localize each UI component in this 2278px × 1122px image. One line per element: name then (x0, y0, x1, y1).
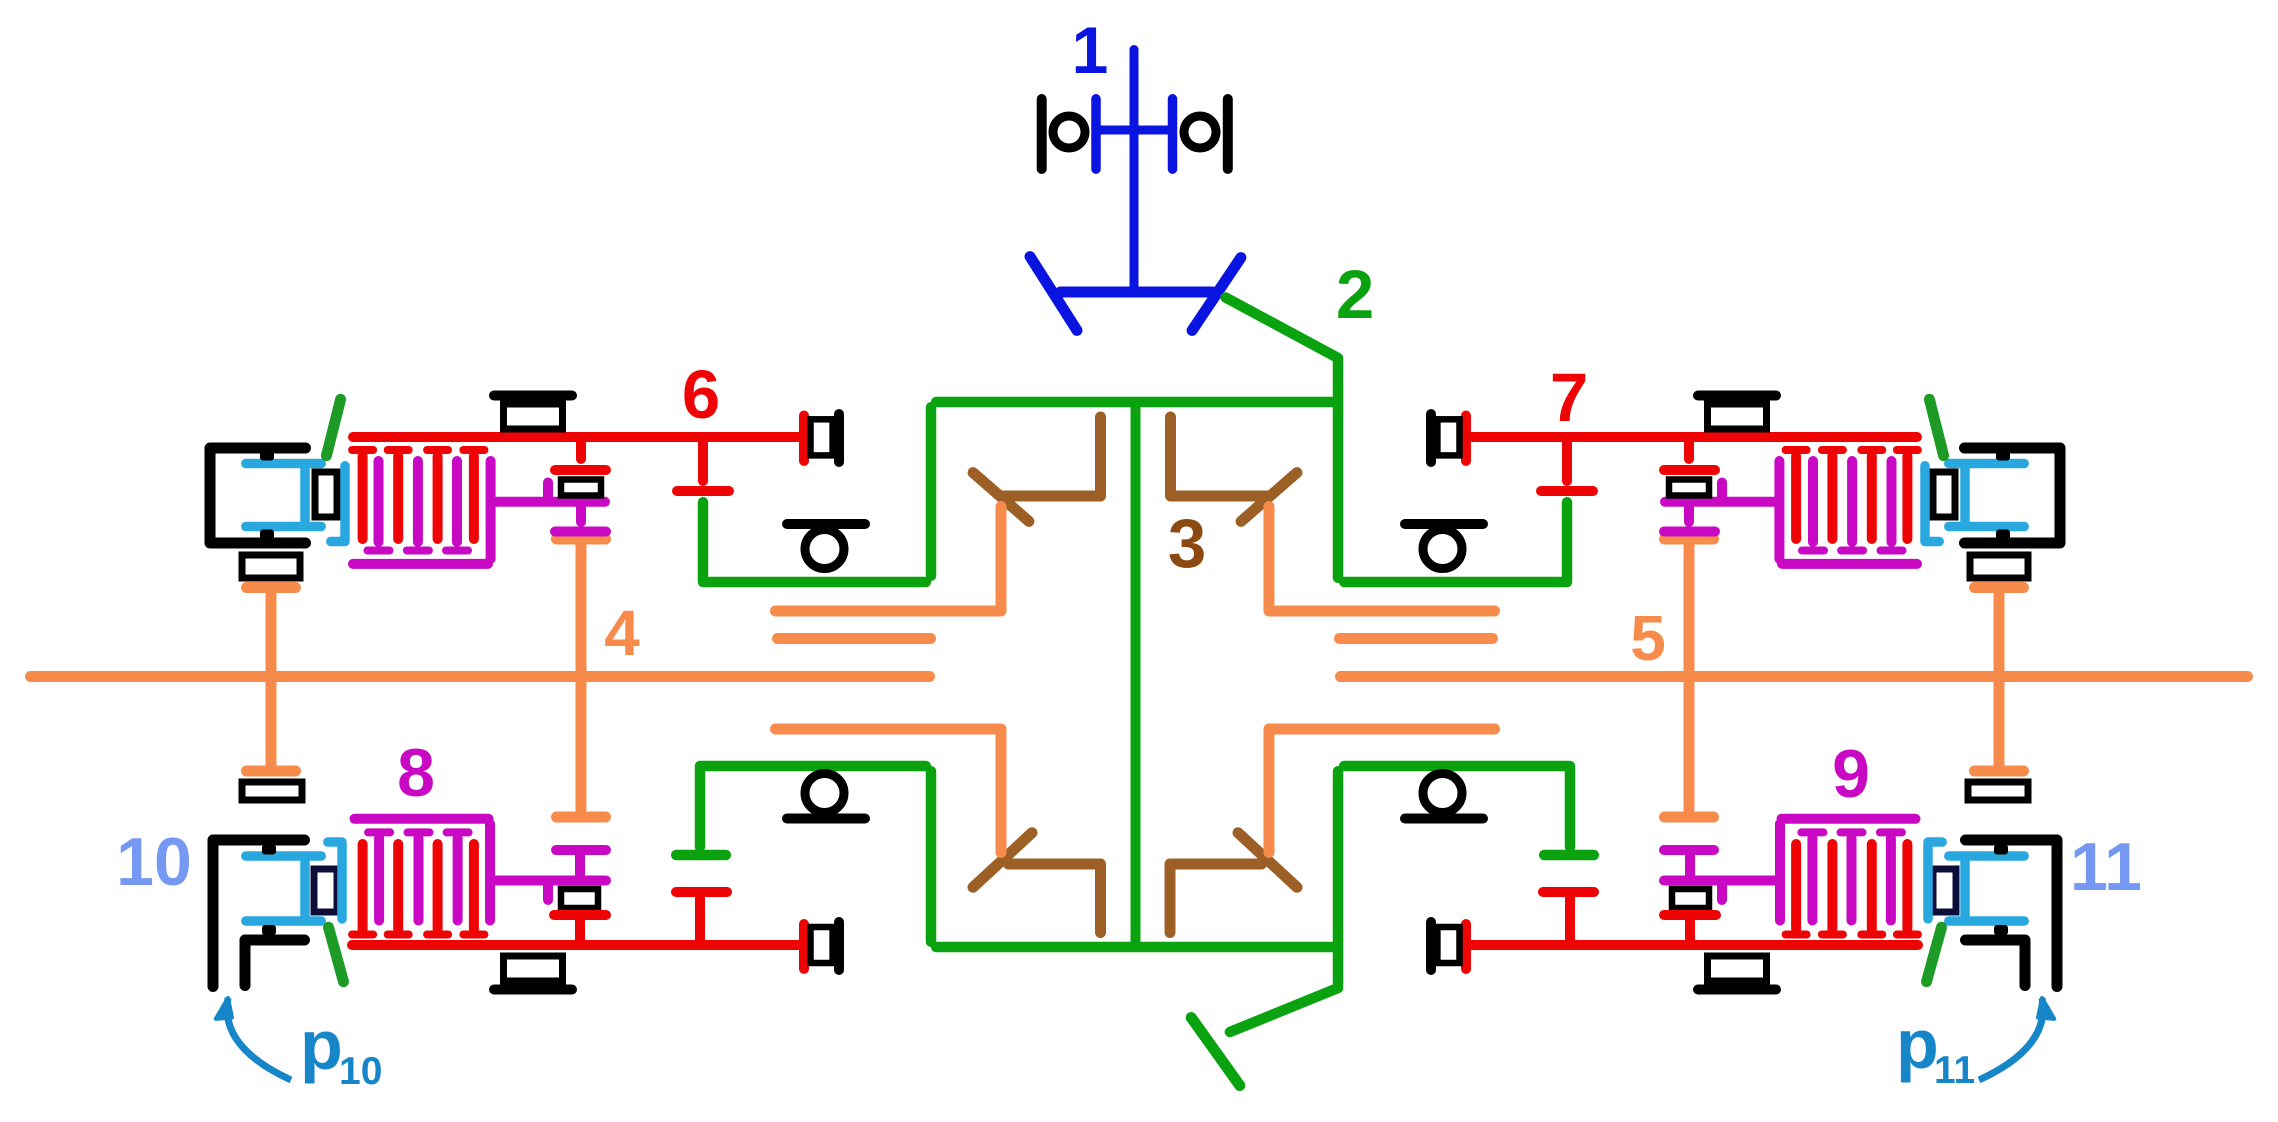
adjustable housing 10 outer (213, 840, 305, 987)
gear 4 inner column left bottom tooth (557, 812, 606, 823)
clutch 8 red plate 4 tooth (463, 931, 484, 939)
carrier bearing upper ball (805, 530, 844, 569)
gear tooth magenta 7 (1664, 527, 1715, 537)
race above gear 5 right (1970, 555, 2028, 578)
clutch 9 red plate 2 tooth (1861, 931, 1882, 939)
clutch 8 output hub (495, 876, 606, 886)
arrow to housing 10 (227, 998, 291, 1080)
hub bearing post 8 (543, 886, 553, 901)
carrier left wall lower (926, 771, 937, 942)
adjustable housing 10 inner (245, 940, 305, 986)
clutch 6 red plate 3 (433, 456, 443, 539)
clutch 9 magenta plate 2 (1847, 838, 1857, 921)
clutch 9 red plate 3 (1827, 844, 1837, 929)
clutch 8 red plate 4 (469, 844, 479, 929)
piston fork 10 web (300, 861, 310, 916)
gear stem magenta 8 (575, 855, 585, 876)
gear 4 outer column left bottom tooth (247, 766, 296, 777)
piston sleeve 10 (328, 842, 342, 919)
hub bearing post 7 (1717, 483, 1727, 497)
shaft 1 inner race left (1091, 99, 1101, 169)
shaft 9 end cap (1461, 924, 1471, 969)
clutch 9 drum top (1782, 814, 1916, 824)
housing pivot pin (1996, 451, 2010, 461)
gear bearing 8 (561, 889, 598, 908)
ring pinion on shaft 6 (698, 442, 708, 481)
clutch 7 magenta plate 1 tooth (1881, 547, 1903, 555)
clutch 8 magenta plate 2 tooth (408, 828, 430, 836)
clutch 6 red plate 3 tooth (427, 446, 448, 454)
shaft 1 crossbar (1097, 126, 1173, 135)
svg-text:7: 7 (1550, 359, 1588, 436)
axle spline right (1340, 633, 1493, 644)
carrier bearing upper ball (1423, 530, 1462, 569)
gear bearing 6 (561, 480, 601, 496)
pinion on shaft 8 (575, 920, 585, 940)
clutch 7 red plate 2 tooth (1861, 446, 1882, 454)
adjustable housing 11 inner (1966, 940, 2026, 986)
shaft 1 inner race right (1168, 99, 1178, 169)
carrier bearing lower ball (805, 774, 844, 813)
clutch 9 magenta plate 1 tooth (1880, 828, 1902, 836)
clutch 7 red plate 2 (1867, 456, 1877, 539)
race below gear 5 right (1968, 782, 2028, 800)
gear 4 outer column right stem (1994, 593, 2005, 766)
actuation lever 11-top (1929, 399, 1943, 455)
shaft 6 end cap (799, 416, 809, 462)
piston sleeve 11-top (1925, 466, 1939, 542)
piston fork 10-top web (300, 468, 310, 522)
carrier top bar (936, 397, 1332, 408)
shaft 8 end cap (799, 924, 809, 969)
shaft 7 line (1471, 432, 1917, 442)
clutch 7 red plate 4 tooth (1786, 446, 1807, 454)
housing pivot pin (1994, 925, 2008, 935)
clutch 6 output hub (496, 497, 605, 507)
clutch 6 red plate 4 (469, 456, 479, 539)
svg-text:9: 9 (1832, 736, 1870, 812)
gear stem magenta 7 (1684, 507, 1694, 522)
housing pivot pin (260, 451, 274, 461)
clutch 9 magenta plate 1 (1886, 838, 1896, 921)
clutch 7 magenta plate 1 (1887, 461, 1897, 542)
ring pinion tooth 7 (1541, 486, 1593, 496)
carrier bottom bar (936, 942, 1332, 953)
shaft 8 end bearing bar (834, 922, 844, 970)
clutch 8 magenta plate 2 (414, 838, 424, 921)
bevel 3 lower-left (1009, 864, 1101, 933)
gear 4 inner column right bottom tooth (1665, 812, 1714, 823)
bearing outer bar left (shaft 1) (1037, 99, 1047, 169)
shaft 7 end bearing bar (1426, 414, 1436, 462)
clutch 9 red plate 3 tooth (1822, 931, 1843, 939)
gear tooth magenta 6 (555, 527, 606, 537)
gear 4 outer column right bottom tooth (1975, 766, 2024, 777)
clutch 7 red plate 1 tooth (1897, 446, 1918, 454)
actuation lever 10 (329, 927, 344, 981)
shaft 7 end cap (1461, 416, 1471, 462)
bevel pinion 1 right tooth (1192, 258, 1241, 331)
shaft 6 end bearing race (811, 419, 833, 455)
svg-text:4: 4 (604, 597, 640, 669)
housing pivot pin (260, 530, 274, 540)
gear bearing 9 (1672, 889, 1709, 908)
gear 4 inner column right stem (1684, 546, 1695, 810)
clutch 8 magenta plate 3 tooth (447, 828, 469, 836)
clutch 9 output hub (1664, 876, 1775, 886)
actuation lever 10-top (326, 399, 340, 455)
clutch 8 red plate 2 tooth (388, 931, 409, 939)
side-gear link lower-right (1344, 766, 1570, 847)
adjustable housing 11 outer (1966, 840, 2058, 987)
piston fork 10-top upper arm (246, 459, 321, 469)
clutch 7 red plate 1 (1902, 456, 1912, 539)
clutch 8 magenta plate 1 tooth (368, 828, 390, 836)
svg-text:1: 1 (1072, 13, 1109, 87)
gear 4 outer column left top tooth (247, 582, 296, 593)
carrier bearing upper bar (787, 519, 865, 529)
clutch 7 red plate 3 tooth (1822, 446, 1843, 454)
shaft 7 end bearing race (1437, 419, 1459, 455)
side-gear shaft lower-right (1269, 729, 1495, 853)
ring pinion on shaft 7 (1562, 442, 1572, 481)
carrier bearing lower bar (787, 814, 865, 824)
housing pivot pin (1996, 530, 2010, 540)
svg-text:p: p (1896, 1005, 1939, 1083)
clutch 8 red plate 2 (393, 844, 403, 929)
side-gear link lower-left (700, 766, 926, 847)
clutch 8 red plate 1 tooth (352, 931, 373, 939)
shaft 9 line (1471, 940, 1918, 950)
bevel 3 upper-left (1004, 417, 1101, 496)
piston fork 11-top lower arm (1949, 522, 2024, 532)
clutch 8 red plate 3 tooth (427, 931, 448, 939)
piston fork 11-top upper arm (1949, 459, 2024, 469)
svg-text:p: p (300, 1006, 343, 1084)
svg-text:2: 2 (1336, 256, 1374, 333)
bearing ball right (shaft 1) (1184, 116, 1216, 148)
carrier center shaft (1131, 407, 1141, 942)
gear stem magenta 6 (576, 507, 586, 522)
ground mount bar (1698, 391, 1776, 401)
arrow to housing 11 (1979, 998, 2043, 1080)
clutch 9 magenta plate 3 tooth (1801, 828, 1823, 836)
clutch 6 magenta plate 2 tooth (407, 547, 429, 555)
clutch 8 drum wall (485, 824, 495, 921)
svg-text:10: 10 (339, 1050, 382, 1093)
side-gear tooth lower-right (1544, 850, 1594, 861)
ring pinion on shaft 8 (695, 897, 705, 940)
piston fork 11 upper arm (1949, 851, 2024, 861)
clutch 8 magenta plate 1 (374, 838, 384, 921)
svg-text:5: 5 (1630, 602, 1666, 674)
axle spline left (778, 633, 931, 644)
shaft 1 (blue input shaft) (1130, 50, 1139, 288)
ground mount bar (1698, 985, 1776, 995)
bevel 3 lower-right tooth (1238, 833, 1297, 888)
clutch 7 red plate 4 (1791, 456, 1801, 539)
clutch 8 red plate 1 (358, 844, 368, 929)
bearing ball left (shaft 1) (1053, 116, 1085, 148)
housing bracket top-right (1965, 448, 2061, 543)
piston fork 10 lower arm (246, 916, 321, 926)
shaft 9 end bearing bar (1426, 922, 1436, 970)
gear bearing 7 (1669, 480, 1709, 496)
ring pinion tooth 6 (677, 486, 729, 496)
clutch 7 magenta plate 3 tooth (1802, 547, 1824, 555)
side-gear link upper-right (1344, 502, 1567, 582)
gear 4 inner column right top tooth (1665, 534, 1714, 545)
piston fork 11 web (1960, 861, 1970, 916)
housing pivot pin (262, 925, 276, 935)
ground mount bar (494, 985, 572, 995)
ground mount race (1708, 404, 1767, 429)
clutch 6 red plate 2 tooth (388, 446, 409, 454)
clutch 9 red plate 1 tooth (1897, 931, 1918, 939)
ground mount race (504, 404, 563, 429)
side-gear shaft upper-left (776, 507, 1002, 612)
hub bearing 9 (1933, 869, 1956, 912)
clutch 6 magenta plate 1 (374, 461, 384, 542)
clutch 8 red plate 3 (433, 844, 443, 929)
clutch 7 red plate 3 (1827, 456, 1837, 539)
ring pinion tooth 9 (1543, 887, 1594, 897)
bevel 3 lower-right (1170, 864, 1262, 933)
axle 4 main line (31, 671, 930, 682)
clutch 6 red plate 2 (393, 456, 403, 539)
housing pivot pin (1994, 845, 2008, 855)
piston sleeve 10-top (331, 466, 345, 542)
ground mount bar (494, 391, 572, 401)
race above gear 4 left (242, 555, 300, 578)
svg-text:3: 3 (1168, 505, 1206, 582)
clutch 6 drum bottom (353, 559, 488, 569)
carrier left wall upper (926, 407, 937, 576)
svg-text:11: 11 (2070, 829, 2142, 905)
svg-text:11: 11 (1934, 1049, 1975, 1092)
axle 5 main line (1341, 671, 2248, 682)
clutch 6 red plate 1 tooth (352, 446, 373, 454)
clutch 6 drum wall (486, 461, 496, 559)
pinion tooth shaft 8 (554, 910, 606, 920)
gear 4 inner column left top tooth (557, 534, 606, 545)
bevel pinion 1 crossbar (1061, 287, 1213, 298)
actuation lever 11 (1927, 927, 1942, 981)
clutch 7 drum bottom (1782, 559, 1917, 569)
clutch 7 magenta plate 2 tooth (1841, 547, 1863, 555)
race below gear 4 left (242, 782, 302, 800)
clutch 8 magenta plate 3 (453, 838, 463, 921)
clutch 9 magenta plate 3 (1807, 838, 1817, 921)
gear 4 outer column right top tooth (1975, 582, 2024, 593)
carrier bearing upper bar (1405, 519, 1483, 529)
clutch 9 magenta plate 2 tooth (1841, 828, 1863, 836)
clutch 6 magenta plate 2 (413, 461, 423, 542)
ground mount race (1708, 956, 1767, 981)
clutch 8 drum top (355, 814, 489, 824)
ring pinion tooth 8 (676, 887, 727, 897)
ring pinion on shaft 9 (1565, 897, 1575, 940)
piston fork 10-top lower arm (246, 522, 321, 532)
hub bearing 8 (314, 869, 337, 912)
bevel 3 lower-left tooth (973, 833, 1032, 888)
pinion tooth shaft 7 (1664, 465, 1715, 475)
gear 4 inner column left stem (576, 546, 587, 810)
clutch 9 red plate 2 (1867, 844, 1877, 929)
gear 4 outer column left stem (266, 593, 277, 766)
clutch 9 red plate 4 (1791, 844, 1801, 929)
hub bearing 7 (1933, 472, 1955, 517)
carrier right wall lower + output stem (1230, 771, 1338, 1032)
clutch 7 magenta plate 3 (1808, 461, 1818, 542)
pinion tooth shaft 9 (1664, 910, 1716, 920)
clutch 6 magenta plate 3 (452, 461, 462, 542)
svg-text:10: 10 (116, 824, 192, 900)
gear stem magenta 9 (1685, 855, 1695, 876)
clutch 9 red plate 1 (1902, 844, 1912, 929)
hub bearing 6 (315, 472, 337, 517)
shaft 9 end bearing race (1437, 927, 1459, 963)
shaft 6 line (353, 432, 799, 442)
pinion on shaft 9 (1685, 920, 1695, 940)
gear tooth magenta 8 (556, 845, 606, 855)
clutch 7 output hub (1665, 497, 1774, 507)
svg-text:6: 6 (682, 356, 720, 433)
side-gear link upper-left (703, 502, 926, 582)
piston sleeve 11 (1928, 842, 1942, 919)
carrier bearing lower ball (1423, 774, 1462, 813)
svg-text:8: 8 (397, 735, 435, 811)
side-gear shaft upper-right (1269, 507, 1495, 612)
pinion tooth shaft 6 (555, 465, 606, 475)
output bevel pinion crossbar (1191, 1018, 1240, 1086)
clutch 6 red plate 4 tooth (463, 446, 484, 454)
clutch 9 drum wall (1775, 824, 1785, 921)
bevel 3 upper-right tooth (1241, 473, 1297, 522)
bevel 3 upper-right (1171, 417, 1268, 496)
hub bearing post 9 (1717, 886, 1727, 901)
carrier bearing lower bar (1405, 814, 1483, 824)
bevel 3 upper-left tooth (973, 473, 1029, 522)
clutch 9 red plate 4 tooth (1786, 931, 1807, 939)
hub bearing post 6 (543, 483, 553, 497)
bearing outer bar right (shaft 1) (1223, 99, 1233, 169)
pinion on shaft 7 (1684, 442, 1694, 459)
shaft 6 end bearing bar (834, 414, 844, 462)
piston fork 11 lower arm (1949, 916, 2024, 926)
clutch 7 drum wall (1774, 461, 1784, 559)
ground mount race (504, 956, 563, 981)
shaft 8 end bearing race (811, 927, 833, 963)
bevel pinion 1 left tooth (1030, 257, 1077, 331)
piston fork 11-top web (1960, 468, 1970, 522)
clutch 6 magenta plate 3 tooth (446, 547, 468, 555)
housing pivot pin (262, 845, 276, 855)
housing bracket top-left (210, 448, 306, 543)
gear tooth magenta 9 (1664, 845, 1714, 855)
side-gear shaft lower-left (776, 729, 1002, 853)
clutch 6 red plate 1 (358, 456, 368, 539)
shaft 8 line (352, 940, 799, 950)
clutch 7 magenta plate 2 (1847, 461, 1857, 542)
link 2 from bevel to carrier (1226, 298, 1338, 578)
side-gear tooth lower-left (676, 850, 726, 861)
pinion on shaft 6 (576, 442, 586, 459)
piston fork 10 upper arm (246, 851, 321, 861)
clutch 6 magenta plate 1 tooth (368, 547, 390, 555)
